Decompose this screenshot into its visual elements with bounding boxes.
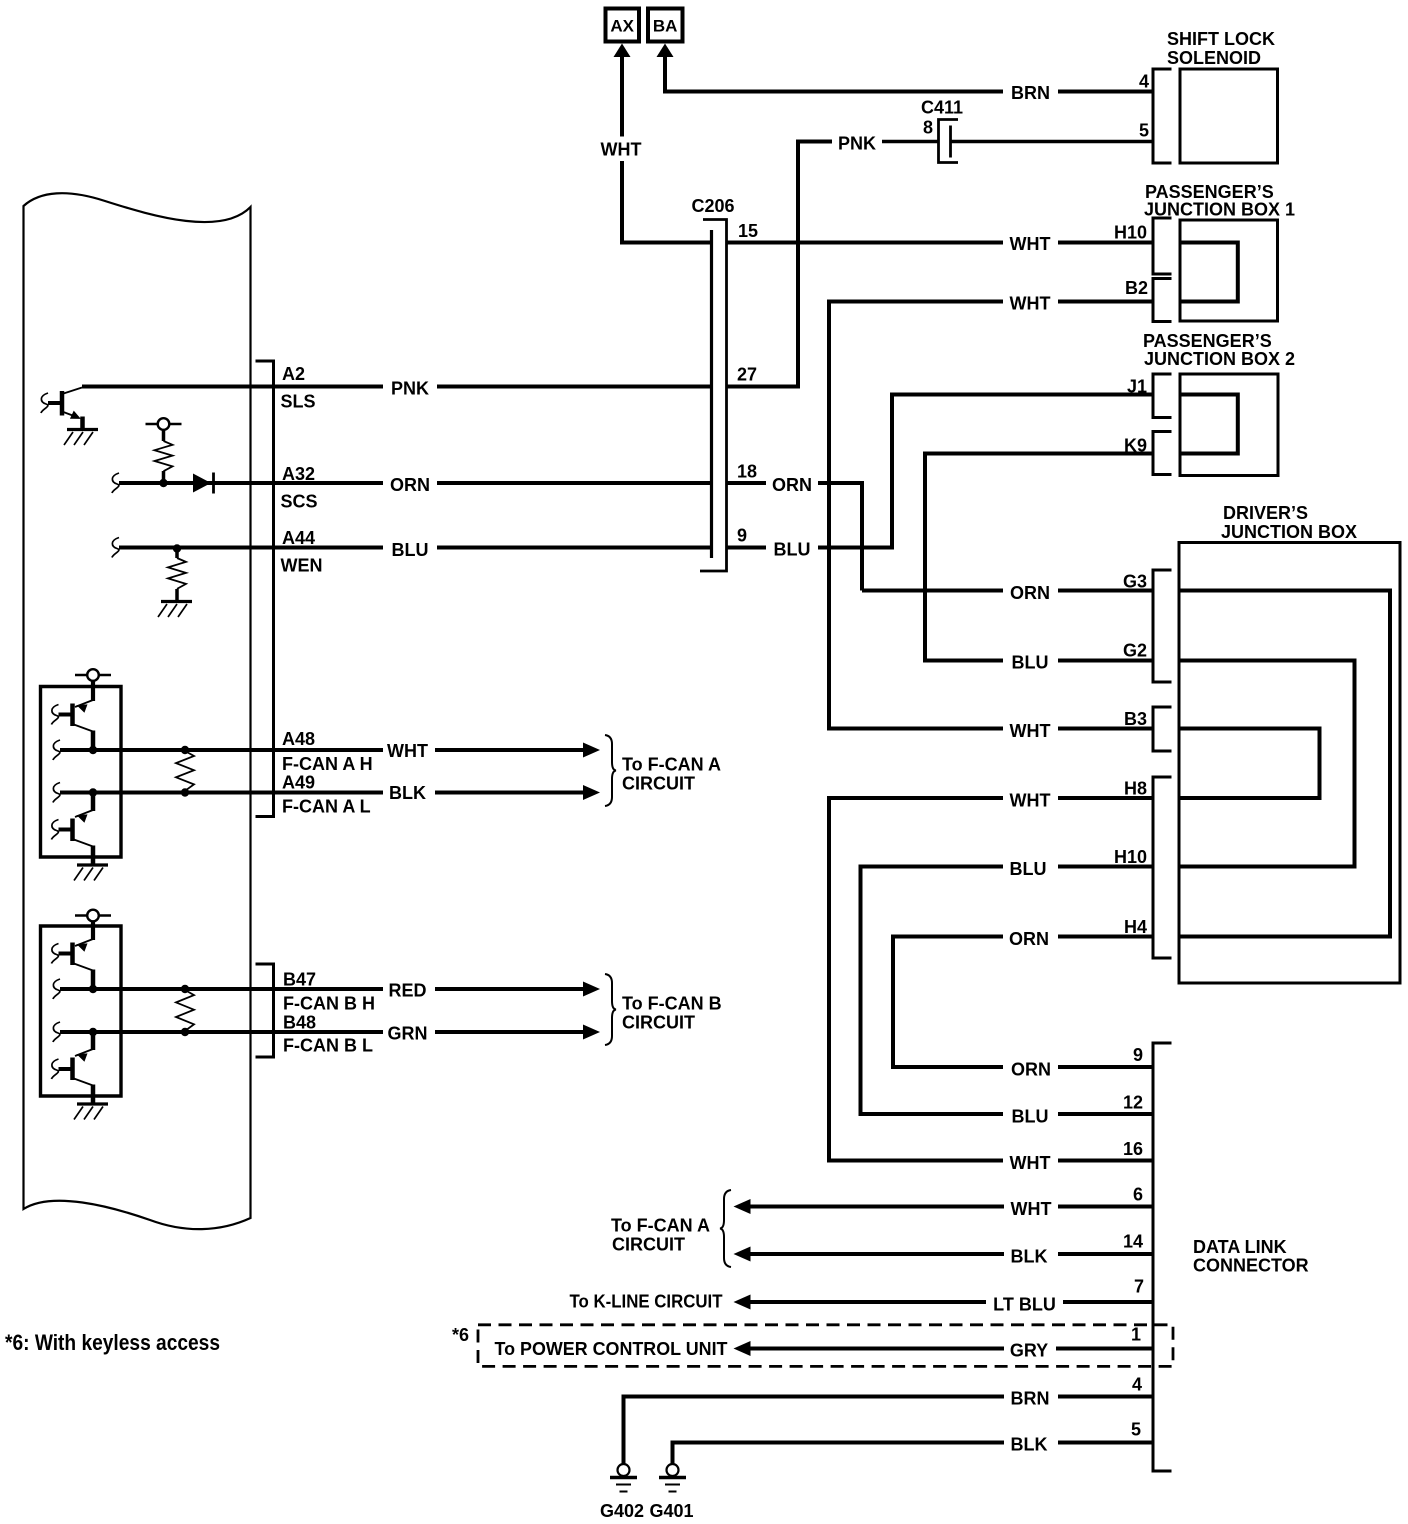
junction dot B48 resistor xyxy=(181,1028,189,1036)
svg-text:4: 4 xyxy=(1139,72,1149,92)
wire K9 to G2 (BLU) xyxy=(925,452,1153,661)
wire LT BLU pin 7 xyxy=(750,1300,986,1304)
svg-text:To F-CAN A: To F-CAN A xyxy=(611,1216,710,1236)
svg-text:5: 5 xyxy=(1131,1420,1141,1440)
wire A49 (BLK) xyxy=(53,783,60,803)
svg-text:BLK: BLK xyxy=(389,783,426,803)
connector C206 female line xyxy=(700,220,727,572)
wire B48 (GRN) xyxy=(53,1022,60,1042)
wire BLU to C206 pin 9 xyxy=(437,546,712,550)
svg-text:4: 4 xyxy=(1132,1375,1142,1395)
wire power to resistor R1 xyxy=(162,430,166,441)
svg-text:6: 6 xyxy=(1133,1185,1143,1205)
wire GRY pin 1 xyxy=(750,1347,1004,1351)
wire BLU H10 down to DLC 12 xyxy=(861,865,1004,1115)
junction dot A49 xyxy=(89,788,97,796)
svg-text:H4: H4 xyxy=(1124,917,1147,937)
wire Q1 emitter to ground xyxy=(80,417,85,430)
wire WHT H8 down to DLC 16 xyxy=(829,796,1003,1161)
wire Q2 collector to A48 xyxy=(91,731,96,751)
connector C206 male line xyxy=(710,230,713,558)
svg-text:CONNECTOR: CONNECTOR xyxy=(1193,1256,1309,1276)
arrow to F-CAN A circuit (pin 6) xyxy=(734,1199,751,1214)
transistor Q3 xyxy=(70,819,75,842)
internal wire G3 to H4 xyxy=(1179,591,1390,937)
wire GRN to F-CAN B arrow xyxy=(435,1030,585,1034)
arrow to K-LINE circuit xyxy=(734,1295,751,1310)
transistor Q2 xyxy=(70,704,75,727)
internal wire H10 to B2 xyxy=(1180,243,1238,302)
connector bracket H8/H10/H4 xyxy=(1153,777,1172,958)
wire BLU up to J1 xyxy=(818,395,1153,550)
connector C411 xyxy=(939,120,959,163)
ground G401 xyxy=(667,1464,679,1476)
wire C411 to solenoid pin 5 xyxy=(951,140,1154,144)
svg-text:9: 9 xyxy=(1133,1045,1143,1065)
svg-text:WHT: WHT xyxy=(1010,1153,1051,1173)
internal wire G2 to H10 xyxy=(1179,661,1355,867)
svg-text:BLU: BLU xyxy=(1012,1107,1049,1127)
transistor Q5 xyxy=(70,1058,75,1081)
ground (F-CAN A block) xyxy=(77,863,108,866)
svg-text:GRY: GRY xyxy=(1010,1341,1048,1361)
power symbol (SCS pull-up) xyxy=(146,423,182,426)
svg-text:JUNCTION BOX 2: JUNCTION BOX 2 xyxy=(1144,349,1295,369)
svg-text:To F-CAN B: To F-CAN B xyxy=(622,994,722,1014)
internal wire B3 to H8 xyxy=(1179,729,1320,799)
svg-text:BRN: BRN xyxy=(1011,1389,1050,1409)
svg-text:CIRCUIT: CIRCUIT xyxy=(622,774,695,794)
svg-text:*6: *6 xyxy=(452,1325,469,1345)
wire BLK pin 14 xyxy=(750,1252,1004,1256)
wire BRN pin 4 to ground xyxy=(624,1397,1005,1465)
svg-text:WHT: WHT xyxy=(1011,1199,1052,1219)
wire WHT to pin H10 xyxy=(1058,241,1153,245)
svg-text:BRN: BRN xyxy=(1011,83,1050,103)
svg-text:F-CAN A H: F-CAN A H xyxy=(282,754,373,774)
connector bracket G3/G2 xyxy=(1153,570,1172,682)
wire R2 to ground xyxy=(175,589,179,600)
svg-text:A2: A2 xyxy=(282,364,305,384)
svg-text:5: 5 xyxy=(1139,121,1149,141)
connector bracket (B pins) xyxy=(256,964,274,1057)
svg-text:BLK: BLK xyxy=(1011,1435,1048,1455)
arrow to F-CAN A circuit (H) xyxy=(583,743,600,758)
arrow into BA xyxy=(657,44,674,58)
svg-text:F-CAN A L: F-CAN A L xyxy=(282,797,371,817)
dashed option box (*6) xyxy=(478,1325,1173,1367)
connector bracket H10 (PJB1) xyxy=(1153,218,1172,274)
connector bracket B2 (PJB1) xyxy=(1153,279,1172,322)
svg-text:G3: G3 xyxy=(1123,572,1147,592)
wire A32 (ORN) from squiggle to label xyxy=(112,473,119,493)
junction dot B47 xyxy=(89,985,97,993)
wire B2 to WHT label xyxy=(1058,300,1153,304)
svg-text:12: 12 xyxy=(1123,1093,1143,1113)
connector box BA xyxy=(648,9,683,42)
transistor Q4 xyxy=(70,943,75,966)
wire Q5 to ground xyxy=(91,1085,96,1105)
svg-text:WHT: WHT xyxy=(601,140,642,160)
svg-text:1: 1 xyxy=(1131,1325,1141,1345)
wire power into block B xyxy=(91,922,95,941)
brace (To F-CAN A lower) xyxy=(720,1190,731,1267)
svg-text:BLU: BLU xyxy=(392,540,429,560)
svg-text:A49: A49 xyxy=(282,773,315,793)
resistor R2 xyxy=(168,558,186,589)
wire B48 to Q5 xyxy=(91,1032,96,1050)
wire PNK to C206 pin 27 xyxy=(437,385,712,389)
svg-text:DRIVER’S: DRIVER’S xyxy=(1223,503,1308,523)
svg-text:H10: H10 xyxy=(1114,223,1147,243)
svg-text:LT BLU: LT BLU xyxy=(993,1295,1056,1315)
ground G402 xyxy=(618,1464,630,1476)
svg-text:H8: H8 xyxy=(1124,779,1147,799)
wire BLK to F-CAN A arrow xyxy=(435,791,585,795)
junction dot A48 xyxy=(89,746,97,754)
wire ORN to C206 pin 18 xyxy=(437,481,712,485)
svg-text:WHT: WHT xyxy=(387,741,428,761)
svg-text:K9: K9 xyxy=(1124,436,1147,456)
wire AX vertical (WHT) upper xyxy=(620,56,624,137)
wire Q4 collector to B47 xyxy=(91,970,96,990)
wire RED to F-CAN B arrow xyxy=(435,987,585,991)
wire A44 to resistor R2 xyxy=(175,549,179,559)
svg-text:PASSENGER’S: PASSENGER’S xyxy=(1143,331,1272,351)
svg-text:27: 27 xyxy=(737,365,757,385)
connector bracket J1 xyxy=(1153,374,1172,418)
wire BRN to pin 4 xyxy=(1058,90,1153,94)
junction dot on A44 xyxy=(173,544,181,552)
svg-text:H10: H10 xyxy=(1114,847,1147,867)
resistor R4 (CAN B termination) xyxy=(176,990,194,1031)
connector bracket (A pins) xyxy=(256,361,274,817)
svg-text:ORN: ORN xyxy=(772,475,812,495)
resistor R3 (CAN A termination) xyxy=(176,751,194,791)
svg-text:SLS: SLS xyxy=(281,392,316,412)
svg-text:*6: With keyless access: *6: With keyless access xyxy=(5,1330,220,1355)
svg-text:SHIFT LOCK: SHIFT LOCK xyxy=(1167,29,1275,49)
arrow to F-CAN B circuit (H) xyxy=(583,982,600,997)
svg-text:9: 9 xyxy=(737,526,747,546)
svg-text:G402: G402 xyxy=(600,1501,644,1521)
wire A48 (WHT) xyxy=(53,740,60,760)
svg-text:ORN: ORN xyxy=(390,475,430,495)
svg-text:15: 15 xyxy=(738,221,758,241)
svg-text:A48: A48 xyxy=(282,729,315,749)
svg-text:BLU: BLU xyxy=(1010,859,1047,879)
wire H8 to WHT label xyxy=(1058,796,1153,800)
wire A44 (BLU) from squiggle to label xyxy=(112,538,119,558)
svg-text:16: 16 xyxy=(1123,1139,1143,1159)
svg-text:BLU: BLU xyxy=(1012,653,1049,673)
ground (F-CAN B block) xyxy=(77,1102,108,1105)
svg-text:PNK: PNK xyxy=(391,379,429,399)
resistor R1 xyxy=(155,441,173,471)
svg-text:B48: B48 xyxy=(283,1013,316,1033)
wire H10 to BLU label xyxy=(1058,865,1153,869)
svg-text:ORN: ORN xyxy=(1011,1060,1051,1080)
ground (R2) xyxy=(161,600,192,603)
power symbol (F-CAN A) xyxy=(75,674,111,677)
svg-text:AX: AX xyxy=(610,17,634,36)
arrow to F-CAN A circuit (pin 14) xyxy=(734,1247,751,1262)
svg-text:ORN: ORN xyxy=(1009,929,1049,949)
wire BA vertical + BRN to solenoid xyxy=(665,56,1003,92)
wire C206 pin 27 up to PNK top run xyxy=(727,142,832,389)
svg-text:To POWER CONTROL UNIT: To POWER CONTROL UNIT xyxy=(495,1339,728,1359)
ground (Q1) xyxy=(67,428,98,431)
junction dot B47 resistor xyxy=(181,985,189,993)
transistor Q1 xyxy=(60,391,65,416)
arrow to F-CAN A circuit (L) xyxy=(583,785,600,800)
svg-text:SOLENOID: SOLENOID xyxy=(1167,48,1261,68)
svg-text:BLK: BLK xyxy=(1011,1247,1048,1267)
wire B47 (RED) xyxy=(53,979,60,999)
passenger junction box 1 xyxy=(1180,220,1278,321)
diode D1 xyxy=(193,474,211,493)
passenger junction box 2 xyxy=(1180,374,1278,476)
junction dot A49 resistor xyxy=(181,788,189,796)
connector bracket (data link connector) xyxy=(1153,1043,1172,1471)
svg-text:F-CAN B H: F-CAN B H xyxy=(283,994,375,1014)
brace (F-CAN A) xyxy=(605,735,616,806)
svg-text:CIRCUIT: CIRCUIT xyxy=(622,1013,695,1033)
svg-text:To K-LINE CIRCUIT: To K-LINE CIRCUIT xyxy=(570,1292,723,1312)
svg-text:G2: G2 xyxy=(1123,641,1147,661)
svg-text:B47: B47 xyxy=(283,970,316,990)
arrow to power control unit xyxy=(734,1341,751,1356)
wire ORN H4 down to DLC 9 xyxy=(893,935,1003,1068)
shift lock solenoid box xyxy=(1180,69,1278,163)
junction dot A48 resistor xyxy=(181,746,189,754)
svg-text:F-CAN B L: F-CAN B L xyxy=(283,1036,373,1056)
wire WHT to F-CAN A arrow xyxy=(435,748,585,752)
wire WHT B2 down to B3 xyxy=(829,300,1003,729)
svg-text:B3: B3 xyxy=(1124,709,1147,729)
svg-text:A44: A44 xyxy=(282,528,315,548)
internal wire J1 to K9 xyxy=(1180,395,1238,454)
svg-text:SCS: SCS xyxy=(281,492,318,512)
wire PNK to C411 xyxy=(882,140,938,144)
svg-text:18: 18 xyxy=(737,462,757,482)
wire C206 18 to ORN label xyxy=(727,481,766,485)
wire BLK pin 5 to ground xyxy=(673,1443,1005,1465)
junction dot B48 xyxy=(89,1028,97,1036)
svg-text:G401: G401 xyxy=(649,1501,693,1521)
svg-text:BLU: BLU xyxy=(774,540,811,560)
svg-text:DATA LINK: DATA LINK xyxy=(1193,1237,1287,1257)
wire C206 pin 15 to H10 xyxy=(727,241,1003,245)
control unit outline (torn-edge block) xyxy=(24,193,251,1229)
arrow into AX xyxy=(614,44,631,58)
connector bracket B3 xyxy=(1153,707,1172,751)
svg-text:GRN: GRN xyxy=(388,1024,428,1044)
junction dot on A32 xyxy=(159,479,167,487)
F-CAN A driver block box xyxy=(41,687,122,858)
svg-text:WHT: WHT xyxy=(1010,294,1051,314)
svg-text:PNK: PNK xyxy=(838,134,876,154)
svg-text:B2: B2 xyxy=(1125,278,1148,298)
power symbol (F-CAN B) xyxy=(75,914,111,917)
svg-text:7: 7 xyxy=(1134,1277,1144,1297)
wire WHT pin 6 xyxy=(750,1205,1004,1209)
svg-text:To F-CAN A: To F-CAN A xyxy=(622,755,721,775)
svg-text:8: 8 xyxy=(923,118,933,138)
svg-text:ORN: ORN xyxy=(1010,583,1050,603)
wire C206 9 to BLU label xyxy=(727,546,766,550)
svg-text:WHT: WHT xyxy=(1010,721,1051,741)
wire AX vertical (WHT) lower + to C206 pin 15 xyxy=(622,161,712,243)
F-CAN B driver block box xyxy=(41,926,122,1096)
svg-text:WHT: WHT xyxy=(1010,791,1051,811)
connector bracket K9 xyxy=(1153,432,1172,475)
svg-text:C206: C206 xyxy=(691,196,734,216)
svg-text:J1: J1 xyxy=(1127,377,1147,397)
wire A49 to Q3 xyxy=(91,793,96,812)
svg-text:C411: C411 xyxy=(921,98,963,118)
wire R1 to node A32 xyxy=(162,471,166,483)
svg-text:WEN: WEN xyxy=(281,556,323,576)
svg-text:WHT: WHT xyxy=(1010,234,1051,254)
svg-text:BA: BA xyxy=(653,17,678,36)
wire ORN down to G3 run xyxy=(818,481,862,591)
connector bracket (solenoid pins 4,5) xyxy=(1153,69,1172,163)
svg-text:CIRCUIT: CIRCUIT xyxy=(612,1235,685,1255)
svg-text:JUNCTION BOX: JUNCTION BOX xyxy=(1221,522,1357,542)
wire H4 to ORN label xyxy=(1058,935,1153,939)
svg-text:14: 14 xyxy=(1123,1232,1143,1252)
connector box AX xyxy=(606,9,640,42)
wire Q3 to ground xyxy=(91,846,96,866)
wire A2 (PNK) from Q1 to label xyxy=(82,385,383,389)
wire ORN to G3 xyxy=(862,589,1003,593)
brace (F-CAN B) xyxy=(605,974,616,1045)
wire power into block xyxy=(91,681,95,701)
arrow to F-CAN B circuit (L) xyxy=(583,1025,600,1040)
svg-text:RED: RED xyxy=(388,981,426,1001)
driver's junction box xyxy=(1179,543,1400,984)
